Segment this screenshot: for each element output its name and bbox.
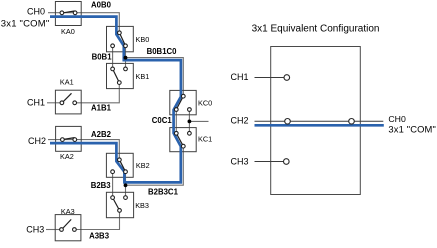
relay KB2 pin bottom-left — [111, 170, 115, 174]
svg-text:C0C1: C0C1 — [152, 116, 173, 125]
svg-text:KA1: KA1 — [60, 77, 74, 86]
svg-text:KC1: KC1 — [198, 135, 212, 144]
relay KB2 armature (closed to right) — [119, 160, 125, 172]
svg-text:B0B1: B0B1 — [92, 52, 113, 61]
wire net A3B3 — [74, 210, 119, 229]
relay KA0 pin right — [73, 11, 77, 15]
equivalent node CH2 contact — [285, 119, 291, 125]
relay KB2 pin top — [118, 158, 122, 162]
node B0B1C0 junction — [124, 56, 128, 60]
svg-text:3x1 "COM": 3x1 "COM" — [388, 124, 436, 135]
wire CH1 lead — [47, 102, 62, 104]
svg-text:A3B3: A3B3 — [89, 231, 110, 240]
relay KA1 armature (open) — [63, 93, 71, 101]
svg-text:CH0: CH0 — [27, 6, 45, 16]
svg-text:KB0: KB0 — [136, 35, 150, 44]
relay KB3 pin top-right — [124, 196, 128, 200]
svg-text:CH3: CH3 — [26, 224, 44, 234]
svg-text:3x1 "COM": 3x1 "COM" — [1, 19, 50, 30]
relay KC0 box — [170, 90, 196, 114]
wire CH0 lead and net A0B0 — [48, 13, 119, 33]
svg-text:CH2: CH2 — [28, 136, 46, 146]
relay KA3 box — [55, 215, 81, 241]
wire net B0B1 left — [112, 46, 114, 69]
equivalent wire CH1 lead — [255, 77, 287, 79]
relay KC0 pin top — [181, 94, 185, 98]
wire net C0C1 left — [175, 110, 177, 134]
wire net A1B1 — [75, 83, 120, 103]
relay KB3 armature (closed to left) — [113, 198, 120, 211]
relay KA0 armature (closed) — [63, 11, 74, 13]
relay KB1 armature (closed to left) — [113, 69, 120, 83]
svg-text:KA3: KA3 — [61, 207, 75, 216]
wire net B2B3 left — [112, 172, 114, 198]
node C0C1 junction — [188, 120, 192, 124]
relay KA2 pin right — [73, 138, 77, 142]
relay KB3 box — [106, 192, 133, 217]
equivalent node CH3 contact — [284, 159, 290, 165]
wire net C0C1 right — [188, 110, 190, 134]
relay KB0 pin top — [118, 31, 122, 35]
relay KB0 pin bottom-left — [111, 44, 115, 48]
relay KC1 pin bottom — [181, 144, 185, 148]
node B2B3C1 junction — [124, 183, 128, 187]
relay KA1 pin right — [73, 101, 77, 105]
svg-text:CH1: CH1 — [231, 72, 249, 82]
svg-text:CH0: CH0 — [388, 114, 406, 124]
relay KA3 pin right — [73, 228, 77, 232]
svg-text:A0B0: A0B0 — [91, 1, 112, 10]
svg-text:CH3: CH3 — [231, 157, 249, 167]
relay KB2 pin bottom-right — [124, 170, 128, 174]
relay KB1 pin top-right — [124, 67, 128, 71]
relay KB0 box — [107, 26, 134, 51]
equivalent wire CH2 through line to CH0 — [255, 120, 384, 122]
relay KC0 pin bottom-left — [174, 108, 178, 112]
relay KC0 armature (closed to left) — [176, 96, 183, 109]
wire net B2B3C1 branch to KC1 — [126, 146, 184, 185]
wire net B0B1C0 branch to KC0 — [126, 58, 184, 97]
relay KB1 pin bottom — [117, 81, 121, 85]
relay KB0 pin bottom-right — [124, 44, 128, 48]
svg-text:KB1: KB1 — [136, 72, 150, 81]
relay KB3 pin top-left — [111, 196, 115, 200]
wire net B2B3C1 vertical between KB2 and KB3 — [125, 172, 127, 198]
svg-text:KB2: KB2 — [136, 161, 150, 170]
svg-text:CH1: CH1 — [27, 98, 45, 108]
svg-text:B0B1C0: B0B1C0 — [147, 47, 178, 56]
svg-text:B2B3C1: B2B3C1 — [148, 188, 179, 197]
svg-text:KC0: KC0 — [198, 98, 212, 107]
relay KA3 pin left — [60, 228, 64, 232]
equivalent node CH1 contact — [284, 75, 290, 81]
relay KA2 armature (closed) — [64, 138, 75, 140]
relay KC0 pin bottom-right — [188, 108, 192, 112]
svg-text:CH2: CH2 — [231, 116, 249, 126]
relay KB3 pin bottom — [118, 209, 122, 213]
relay KA1 pin left — [60, 101, 64, 105]
wire CH2 lead and net A2B2 — [48, 140, 119, 160]
relay KC1 pin top-right — [188, 131, 192, 135]
svg-text:B2B3: B2B3 — [91, 181, 112, 190]
relay KC1 box — [170, 128, 196, 152]
equivalent CH2 highlighted path (blue) — [255, 124, 384, 127]
relay KA2 pin left — [61, 138, 65, 142]
relay KA0 pin left — [60, 11, 64, 15]
svg-text:KB3: KB3 — [135, 201, 149, 210]
svg-text:A1B1: A1B1 — [91, 103, 112, 112]
svg-text:KA0: KA0 — [61, 27, 75, 36]
wire CH3 lead — [46, 229, 62, 231]
svg-text:3x1 Equivalent Configuration: 3x1 Equivalent Configuration — [252, 24, 380, 35]
relay KA1 box — [55, 90, 81, 114]
equivalent wire CH3 lead — [255, 161, 287, 163]
svg-text:KA2: KA2 — [60, 152, 74, 161]
relay KC1 pin top-left — [174, 131, 178, 135]
relay KA3 armature (open) — [63, 219, 71, 228]
svg-text:A2B2: A2B2 — [91, 130, 112, 139]
highlighted signal path CH0 to CH2 (blue) — [50, 17, 181, 183]
relay KA2 box — [56, 126, 82, 151]
wire C0C1 output stub — [189, 120, 208, 122]
relay KB2 box — [106, 153, 133, 177]
relay KC1 armature (closed to left) — [176, 133, 183, 146]
equivalent configuration box — [271, 47, 361, 195]
relay KB1 box — [107, 63, 134, 88]
equivalent node CH0 contact — [349, 119, 355, 125]
relay KB0 armature (closed to right) — [119, 33, 125, 46]
wire net B0B1C0 vertical between KB0 and KB1 — [125, 46, 127, 69]
relay KA0 box — [55, 2, 81, 26]
relay KB1 pin top-left — [111, 67, 115, 71]
